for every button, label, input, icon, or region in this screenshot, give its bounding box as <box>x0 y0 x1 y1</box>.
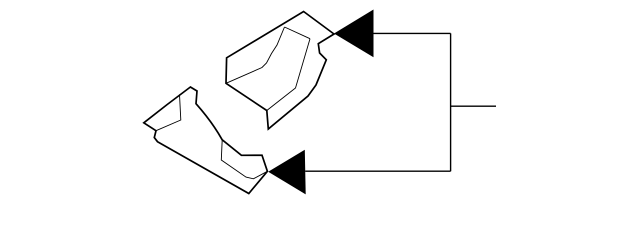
part 1 outline (upper panel) <box>226 12 334 130</box>
part 1 inner crease right <box>267 39 310 111</box>
vertical bracket line <box>450 33 452 171</box>
part 2 outline (lower bracket) <box>144 87 268 194</box>
part 2 inner fold line left <box>156 94 181 130</box>
callout tick line <box>451 105 496 107</box>
leader line from arrow 2 <box>305 170 450 172</box>
part 1 inner top edge <box>285 27 311 39</box>
leader arrow 1 (top, points left at part 1) <box>334 10 374 58</box>
part 2 inner fold line right <box>221 140 267 179</box>
leader arrow 2 (bottom, points left at part 2) <box>268 150 306 195</box>
part 1 inner crease left <box>226 27 285 83</box>
leader line from arrow 1 <box>374 32 451 34</box>
